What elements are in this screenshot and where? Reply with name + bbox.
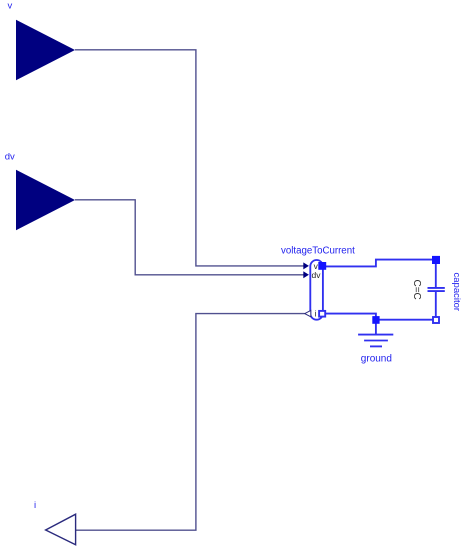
svg-text:dv: dv [312,270,322,280]
svg-text:C=C: C=C [411,280,422,300]
svg-text:i: i [315,309,317,319]
svg-text:ground: ground [361,354,392,365]
svg-text:i: i [34,500,36,511]
svg-text:dv: dv [5,152,15,163]
svg-text:voltageToCurrent: voltageToCurrent [281,246,355,257]
svg-text:capacitor: capacitor [451,273,462,312]
svg-text:v: v [8,1,13,12]
